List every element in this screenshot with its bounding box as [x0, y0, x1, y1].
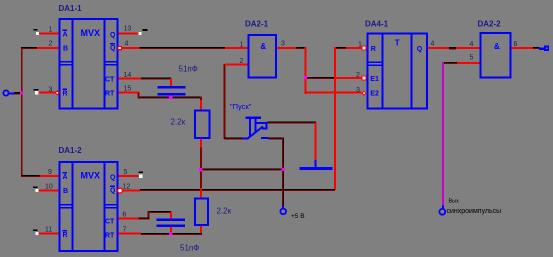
svg-text:MVX: MVX: [81, 170, 101, 180]
svg-text:DA4-1: DA4-1: [365, 20, 389, 29]
svg-text:Q: Q: [110, 175, 116, 182]
svg-text:&: &: [260, 42, 266, 51]
svg-text:R: R: [63, 232, 68, 239]
svg-text:Q: Q: [417, 46, 423, 53]
svg-text:Вых: Вых: [449, 199, 460, 205]
svg-text:"Пуск": "Пуск": [230, 102, 252, 111]
svg-text:2: 2: [240, 58, 244, 65]
svg-text:MVX: MVX: [81, 28, 101, 38]
svg-text:6: 6: [514, 41, 518, 48]
svg-text:2.2к: 2.2к: [171, 117, 186, 126]
svg-text:+5 В: +5 В: [291, 213, 305, 220]
svg-text:DA2-1: DA2-1: [245, 20, 269, 29]
svg-text:2: 2: [49, 41, 53, 48]
svg-text:12: 12: [123, 183, 131, 190]
svg-text:13: 13: [124, 25, 132, 32]
svg-text:синхроимпульсы: синхроимпульсы: [447, 208, 502, 215]
svg-text:15: 15: [124, 86, 132, 93]
svg-text:3: 3: [49, 86, 53, 93]
svg-text:1: 1: [240, 41, 244, 48]
svg-text:Q: Q: [110, 187, 116, 194]
svg-text:3: 3: [281, 41, 285, 48]
svg-text:14: 14: [124, 72, 132, 79]
svg-text:A: A: [63, 31, 68, 38]
svg-text:3: 3: [356, 87, 360, 94]
svg-text:5: 5: [470, 55, 474, 62]
svg-text:1: 1: [358, 42, 362, 49]
svg-text:11: 11: [45, 226, 52, 233]
svg-text:4: 4: [125, 41, 129, 48]
svg-text:CT: CT: [105, 76, 115, 83]
svg-text:E1: E1: [370, 76, 379, 83]
svg-text:51пФ: 51пФ: [179, 65, 198, 74]
svg-text:RT: RT: [105, 90, 115, 97]
svg-text:9: 9: [48, 169, 52, 176]
svg-text:Q: Q: [110, 45, 116, 52]
svg-text:B: B: [63, 188, 68, 195]
svg-text:1: 1: [49, 26, 53, 33]
svg-text:RT: RT: [105, 232, 115, 239]
svg-text:DA1-1: DA1-1: [59, 4, 83, 13]
svg-text:E2: E2: [370, 90, 379, 97]
svg-text:CT: CT: [105, 218, 115, 225]
svg-text:DA1-2: DA1-2: [59, 146, 83, 155]
svg-text:B: B: [63, 46, 68, 53]
svg-text:51пФ: 51пФ: [180, 244, 199, 253]
svg-text:4: 4: [470, 41, 474, 48]
svg-text:6: 6: [123, 211, 127, 218]
svg-text:Q: Q: [110, 32, 116, 39]
svg-text:T: T: [395, 39, 400, 48]
svg-text:A: A: [63, 174, 68, 181]
svg-text:7: 7: [123, 226, 127, 233]
svg-text:10: 10: [45, 183, 53, 190]
svg-text:2: 2: [356, 72, 360, 79]
svg-text:DA2-2: DA2-2: [478, 20, 502, 29]
svg-text:R: R: [63, 90, 68, 97]
svg-text:4: 4: [431, 41, 435, 48]
svg-text:5: 5: [124, 169, 128, 176]
svg-text:2.2к: 2.2к: [217, 207, 232, 216]
svg-text:R: R: [371, 46, 376, 53]
svg-text:&: &: [494, 42, 500, 51]
